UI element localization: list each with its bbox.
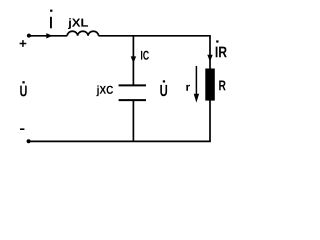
label: IC: [141, 51, 149, 60]
node: + terminal dot (top-left): [27, 34, 31, 38]
arrow: voltage drop r across R (head): [194, 94, 199, 103]
arrow: voltage drop r across R (shaft): [195, 66, 197, 94]
wire: middle branch lower (from capacitor): [132, 100, 134, 141]
label: jXL: [68, 18, 88, 29]
arrow: current I on top wire: [46, 33, 52, 38]
label: R: [219, 81, 226, 91]
label: jXC: [97, 85, 114, 96]
label: U capacitor voltage (overdot): [163, 80, 165, 82]
arrow: current IC on middle branch: [131, 56, 136, 63]
label: + terminal: [20, 40, 27, 47]
label: IR (letters): [216, 47, 227, 58]
arrow: current IR on right branch: [207, 55, 212, 62]
label: phasor current I (letter): [50, 17, 52, 29]
wire: right vertical branch: [209, 35, 211, 141]
label: phasor current I (overdot): [50, 10, 52, 12]
wire: bottom horizontal: [29, 140, 211, 142]
label: U source voltage (letter): [20, 86, 27, 97]
resistor R body (filled bar): [205, 69, 215, 101]
label: r: [186, 85, 190, 91]
label: IR (overdot): [216, 40, 218, 42]
wire: top horizontal left segment: [29, 35, 67, 37]
label: minus terminal: [20, 128, 24, 130]
wire: top horizontal right segment: [99, 35, 211, 37]
label: U source voltage (overdot): [22, 81, 24, 83]
wire: middle branch upper (to capacitor): [132, 36, 134, 85]
inductor L (jXL), 3 humps: [67, 31, 98, 36]
node: - terminal dot (bottom-left): [27, 139, 31, 143]
capacitor C (jXC): top plate: [119, 84, 146, 86]
label: U capacitor voltage (letter): [160, 85, 167, 96]
capacitor C (jXC): bottom plate: [119, 99, 146, 101]
